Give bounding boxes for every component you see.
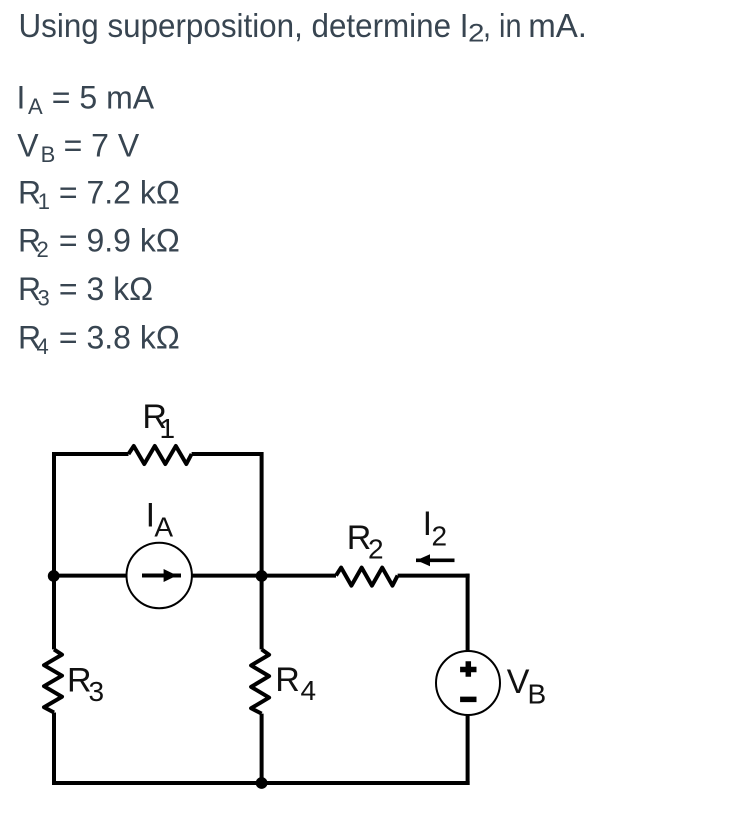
resistor R2 bbox=[336, 568, 398, 586]
wire middle vertical lower bbox=[260, 714, 264, 785]
resistor R4 bbox=[251, 649, 269, 713]
junction node C (bottom middle) bbox=[256, 777, 268, 789]
label R2 bbox=[347, 519, 384, 565]
label R4 bbox=[275, 661, 316, 706]
svg-text:VB= 7 V: VB= 7 V bbox=[17, 127, 140, 167]
label R1 bbox=[142, 398, 175, 444]
svg-text:mA.: mA. bbox=[528, 8, 587, 45]
voltage source VB plus sign bbox=[460, 661, 476, 676]
junction node A (left middle) bbox=[48, 570, 60, 582]
voltage source VB circle bbox=[436, 651, 500, 715]
label VB bbox=[507, 663, 546, 710]
wire from node B to R2 bbox=[262, 574, 336, 578]
wire right vertical lower bbox=[466, 715, 470, 786]
wire bottom horizontal bbox=[52, 781, 470, 785]
svg-text:R3= 3 kΩ: R3= 3 kΩ bbox=[18, 271, 153, 311]
wire left vertical upper bbox=[52, 452, 56, 649]
svg-text:B: B bbox=[528, 679, 547, 710]
wire middle horizontal right of IA bbox=[192, 574, 262, 578]
wire right vertical upper bbox=[466, 574, 470, 652]
wire left vertical lower bbox=[52, 713, 56, 786]
svg-text:, in: , in bbox=[483, 8, 522, 45]
svg-text:1: 1 bbox=[160, 413, 176, 444]
current arrow I2 bbox=[416, 554, 455, 566]
svg-text:4: 4 bbox=[301, 675, 317, 706]
svg-text:2: 2 bbox=[432, 521, 448, 552]
wire middle vertical upper bbox=[260, 452, 264, 649]
svg-text:2: 2 bbox=[368, 534, 384, 565]
resistor R1 bbox=[129, 446, 192, 464]
label IA bbox=[146, 496, 174, 542]
svg-text:Using superposition, determine: Using superposition, determine I bbox=[19, 8, 469, 45]
current source IA arrow bbox=[142, 569, 181, 582]
resistor R3 bbox=[44, 649, 62, 712]
svg-text:A: A bbox=[154, 512, 173, 543]
junction node B (center middle) bbox=[256, 570, 268, 582]
wire top-left horizontal segment bbox=[52, 452, 129, 456]
svg-text:3: 3 bbox=[89, 676, 105, 707]
wire from R2 to right corner bbox=[398, 574, 470, 578]
given values list bbox=[17, 80, 180, 359]
svg-text:R: R bbox=[275, 661, 300, 699]
label R3 bbox=[67, 661, 104, 707]
wire middle horizontal left of IA bbox=[54, 574, 127, 578]
voltage source VB minus sign bbox=[460, 697, 476, 703]
title: Using superposition, determine I2, in mA. bbox=[19, 8, 588, 47]
current source IA circle bbox=[127, 543, 192, 608]
wire top-right horizontal segment bbox=[192, 452, 262, 456]
label I2 bbox=[423, 505, 447, 551]
svg-text:V: V bbox=[507, 663, 530, 701]
